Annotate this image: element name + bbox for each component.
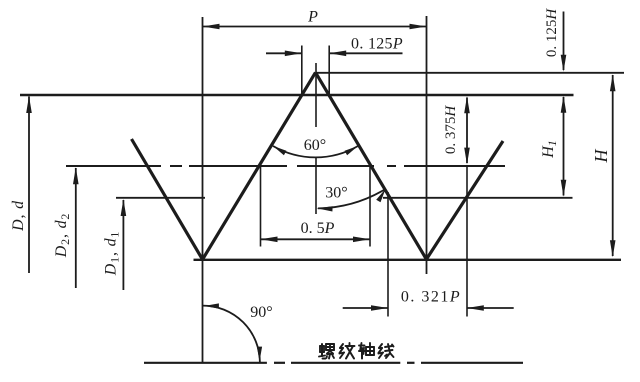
dimension line H1 (561, 96, 567, 197)
apex level line (317, 72, 624, 74)
text 螺纹轴线 (thread axis label) (319, 343, 394, 359)
D1 minor diameter line left segment (116, 197, 205, 199)
main triangle right flank (316, 72, 427, 259)
svg-text:0. 5P: 0. 5P (301, 220, 335, 237)
right tooth right flank (426, 141, 503, 259)
dimension line P (203, 24, 427, 30)
dimension line 0.5P with extension lines (261, 167, 371, 247)
dimension line D1,d1 (121, 199, 127, 290)
svg-text:0. 125P: 0. 125P (351, 36, 403, 53)
apex centerline (315, 63, 317, 214)
pitch line (dash-dot centerline) (66, 165, 505, 167)
crest line (major diameter) (20, 94, 574, 96)
thread axis centerline (144, 362, 523, 364)
main triangle left flank (203, 72, 316, 259)
svg-text:0. 125H: 0. 125H (544, 8, 560, 58)
right vertical extension line through right root (426, 16, 428, 274)
30 degree flank angle arc (317, 189, 386, 212)
svg-text:0. 321P: 0. 321P (401, 289, 461, 306)
svg-text:30°: 30° (325, 185, 347, 202)
svg-text:0. 375H: 0. 375H (443, 105, 459, 155)
dimension line 0.375H (464, 96, 470, 164)
svg-text:D, d: D, d (10, 200, 27, 232)
D1 minor diameter line right segment (383, 197, 573, 199)
dimension line H (610, 74, 616, 257)
dimension line 0.125P with extension lines (266, 46, 403, 96)
90 degree axis angle arc (203, 303, 262, 362)
svg-text:60°: 60° (304, 137, 326, 154)
svg-text:P: P (307, 9, 318, 26)
60 degree half-angle arc (273, 146, 358, 157)
svg-text:90°: 90° (250, 304, 272, 321)
dimension line D2,d2 (73, 167, 79, 288)
dimension line 0.321P with extension lines (343, 165, 514, 317)
dimension line 0.125H upper arrow (561, 12, 567, 72)
root line (triangle base) (194, 259, 622, 261)
left vertical extension line through left root (202, 17, 204, 363)
left tooth left flank (132, 139, 203, 260)
svg-text:H: H (591, 149, 611, 164)
dimension line D,d (26, 96, 32, 273)
